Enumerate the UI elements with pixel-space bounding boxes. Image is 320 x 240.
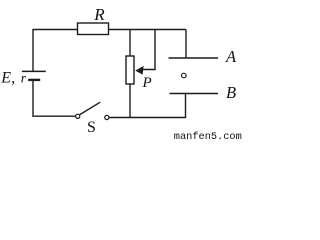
wiper arrowhead on P (135, 66, 143, 75)
switch S left contact (76, 114, 80, 118)
svg-text:R: R (93, 5, 105, 24)
svg-text:B: B (226, 83, 236, 102)
wire potentiometer bottom stem (129, 84, 131, 118)
battery E,r positive plate (long) (22, 70, 46, 72)
wire from B down to bottom wire (185, 94, 187, 118)
wire from R to top-right corner (109, 29, 187, 31)
open terminal node circle between A and B (182, 73, 187, 78)
wire terminal B (170, 93, 219, 95)
svg-text:E,: E, (0, 69, 15, 86)
wire top-left from battery positive up and right to R (33, 30, 78, 72)
svg-text:S: S (87, 119, 96, 136)
battery E,r negative plate (short) (28, 79, 40, 81)
resistor R (78, 23, 109, 35)
svg-text:manfen5.com: manfen5.com (174, 131, 242, 141)
wire bottom-left from battery negative down and right to switch (33, 80, 76, 117)
wire wiper arm from top wire down and left (143, 30, 155, 70)
potentiometer P body (126, 56, 134, 84)
wire potentiometer top stem (129, 30, 131, 57)
switch S blade (80, 102, 100, 114)
wire bottom-right from switch to B branch (109, 117, 186, 119)
svg-text:P: P (142, 75, 152, 91)
svg-text:A: A (225, 47, 237, 66)
wire right vertical down to A (185, 30, 187, 59)
switch S right contact (105, 115, 109, 119)
wire terminal A (169, 57, 219, 59)
svg-text:r: r (21, 70, 27, 85)
